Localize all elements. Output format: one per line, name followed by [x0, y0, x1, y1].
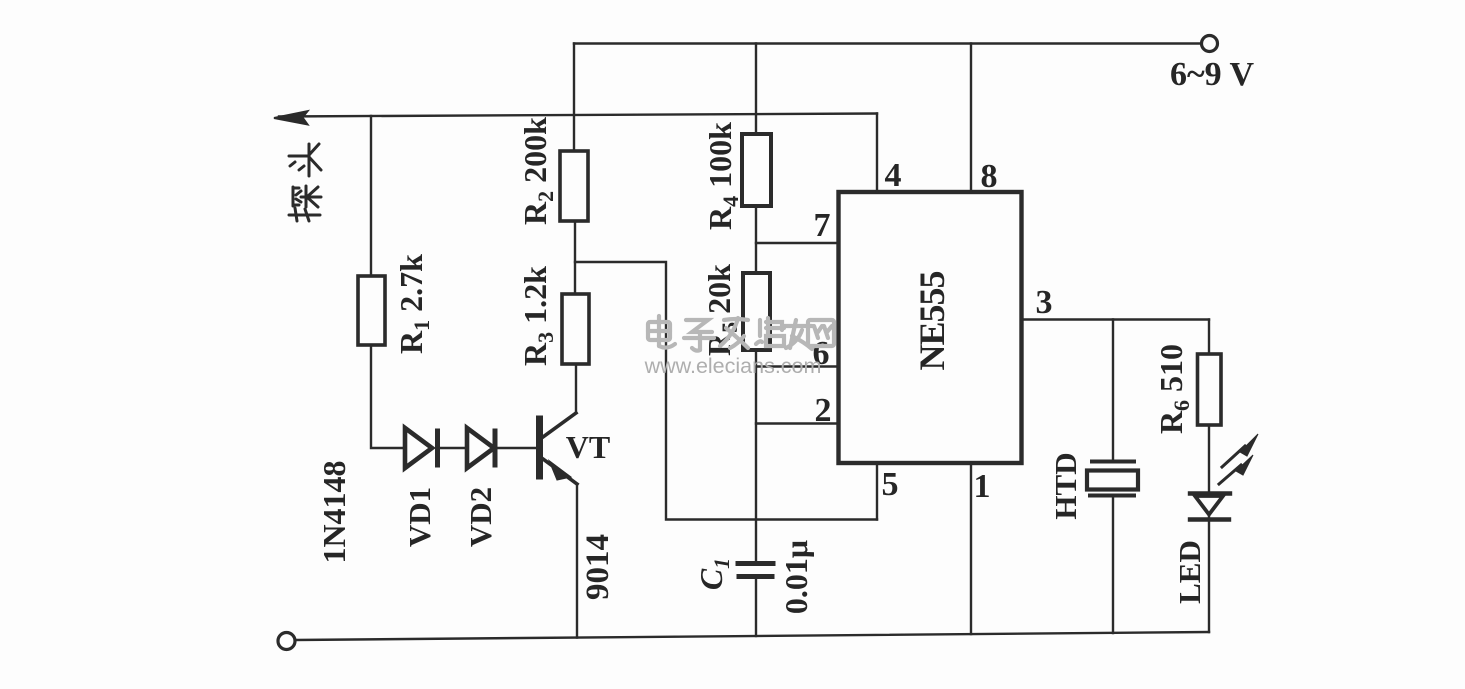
wire pin 2 connection	[756, 422, 839, 424]
svg-text:NE555: NE555	[912, 271, 952, 370]
node probe arrowhead	[274, 111, 308, 124]
svg-text:VT: VT	[566, 429, 610, 465]
wire probe line horizontal	[279, 114, 877, 117]
wire VT emitter to bottom rail	[576, 484, 578, 638]
svg-text:R3 1.2k: R3 1.2k	[517, 266, 558, 366]
wire VD2 to base of VT	[497, 447, 537, 449]
svg-text:7: 7	[814, 207, 831, 244]
svg-text:HTD: HTD	[1048, 452, 1083, 519]
transistor VT 9014	[540, 413, 578, 484]
node positive supply terminal	[1202, 36, 1218, 52]
resistor R2	[560, 151, 588, 221]
wire R6 branch from pin 3	[1208, 320, 1210, 355]
svg-text:R6 510: R6 510	[1153, 344, 1194, 434]
wire R4 column from supply rail	[755, 44, 757, 135]
capacitor C1	[738, 564, 773, 577]
wire pin 8 drop from supply rail	[970, 44, 972, 193]
wire pin 1 to ground rail	[970, 463, 972, 634]
svg-text:3: 3	[1036, 284, 1053, 321]
wire node R2-R3 junction to pin5 path	[575, 262, 877, 520]
resistor R1	[358, 276, 385, 345]
svg-text:R1 2.7k: R1 2.7k	[393, 254, 434, 354]
resistor R5	[743, 273, 770, 350]
svg-text:R2 200k: R2 200k	[517, 117, 558, 225]
LED light emission arrows	[1219, 434, 1258, 484]
wire bottom ground rail	[295, 632, 1209, 640]
diode VD1	[405, 428, 438, 468]
svg-text:5: 5	[882, 466, 899, 503]
wire R4 bottom to R5 top	[755, 206, 757, 273]
buzzer HTD	[1087, 462, 1138, 496]
svg-text:1N4148: 1N4148	[316, 460, 352, 563]
wire VT collector to R3	[575, 364, 577, 413]
svg-text:1: 1	[974, 468, 991, 505]
wire HTD branch drop	[1112, 320, 1114, 462]
wire R6 bottom to LED	[1208, 425, 1210, 493]
svg-text:VD1: VD1	[402, 487, 437, 547]
wire R1 bottom to diode row	[371, 345, 404, 448]
wire HTD bottom to ground rail	[1112, 497, 1114, 633]
svg-text:www.elecians.com: www.elecians.com	[644, 354, 822, 378]
wire R2 bottom to R3 top	[574, 221, 576, 294]
watermark 电子发烧友网 hand-drawn	[648, 316, 834, 351]
svg-text:R4 100k: R4 100k	[702, 122, 743, 230]
resistor R6	[1198, 354, 1222, 425]
svg-text:9014: 9014	[580, 534, 616, 600]
op-amp U1 NE555 box	[839, 192, 1022, 463]
wire R2 top column from supply rail	[573, 44, 575, 152]
resistor R3	[562, 294, 589, 364]
wire pin 7 connection	[756, 242, 839, 244]
wire pin 6 connection	[756, 365, 839, 367]
node ground terminal	[278, 633, 295, 650]
svg-text:4: 4	[885, 157, 902, 194]
wire R5 bottom to C1	[755, 350, 757, 561]
wire VD1 to VD2	[440, 447, 467, 449]
wire pin 3 output line	[1022, 318, 1210, 320]
label probe 探头 hand-drawn	[289, 144, 321, 221]
wire pin 4 drop from probe line	[876, 114, 878, 193]
svg-text:0.01μ: 0.01μ	[778, 540, 814, 614]
svg-text:6~9 V: 6~9 V	[1170, 56, 1255, 93]
svg-text:2: 2	[815, 392, 832, 429]
wire pin 5 stub	[876, 463, 878, 520]
wire R1 top drop from probe line	[370, 116, 372, 276]
wire C1 bottom to ground rail	[755, 579, 757, 636]
diode VD2	[467, 428, 495, 468]
svg-text:8: 8	[981, 158, 998, 195]
resistor R4	[742, 134, 771, 206]
wire LED bottom to ground rail	[1208, 516, 1210, 632]
wire top supply rail	[574, 42, 1201, 44]
LED diode	[1190, 494, 1230, 520]
svg-text:VD2: VD2	[463, 487, 498, 547]
svg-text:LED: LED	[1172, 540, 1207, 604]
